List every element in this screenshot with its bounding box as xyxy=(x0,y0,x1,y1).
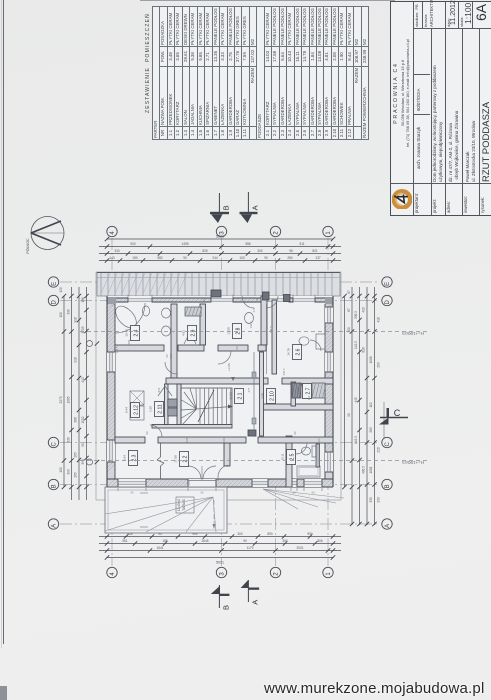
svg-text:D: D xyxy=(385,299,391,304)
svg-text:986: 986 xyxy=(202,297,206,302)
outer walls xyxy=(107,298,333,302)
room label 2.5 xyxy=(287,450,296,465)
svg-text:A: A xyxy=(250,205,259,210)
svg-text:118.5: 118.5 xyxy=(317,436,321,443)
interior walls xyxy=(171,304,177,378)
svg-text:C: C xyxy=(394,408,401,418)
axis grid lines xyxy=(111,238,113,566)
svg-text:H=+190cm: H=+190cm xyxy=(402,460,424,465)
chimney block bottom xyxy=(248,430,256,436)
dimension chains right xyxy=(344,296,346,487)
stairs arrow xyxy=(228,405,233,409)
svg-text:200: 200 xyxy=(169,353,173,358)
dark appliance stack by stairs xyxy=(168,399,177,407)
svg-text:90: 90 xyxy=(293,431,297,435)
svg-text:11,45m2: 11,45m2 xyxy=(177,499,181,511)
double terrace door room 2.2 xyxy=(188,479,216,487)
svg-text:345.5: 345.5 xyxy=(282,368,286,375)
svg-text:1: 1 xyxy=(326,231,332,235)
svg-text:2.6: 2.6 xyxy=(296,348,302,355)
svg-text:918: 918 xyxy=(74,317,78,323)
svg-text:265: 265 xyxy=(74,472,78,478)
scan bottom-left mark xyxy=(0,686,7,700)
svg-text:90: 90 xyxy=(264,256,268,260)
svg-text:PÓŁNOC: PÓŁNOC xyxy=(25,238,30,254)
watermark xyxy=(264,680,485,697)
room label 2.1 xyxy=(235,389,244,404)
svg-text:90: 90 xyxy=(145,431,149,435)
svg-text:2: 2 xyxy=(273,231,279,235)
svg-text:825: 825 xyxy=(157,387,161,392)
svg-text:+3.08: +3.08 xyxy=(227,363,231,371)
oval chair room 2.8 xyxy=(245,313,254,324)
svg-text:2.11: 2.11 xyxy=(158,404,164,414)
svg-text:382: 382 xyxy=(222,437,226,442)
chimney block top wall 2 xyxy=(263,292,270,300)
svg-text:300: 300 xyxy=(257,249,263,253)
svg-text:982: 982 xyxy=(157,256,163,260)
svg-text:330: 330 xyxy=(114,249,120,253)
wardrobe hatched room 2.9 xyxy=(185,307,201,316)
svg-text:90: 90 xyxy=(347,413,351,417)
partition room 2.5 xyxy=(316,444,320,467)
svg-text:87: 87 xyxy=(347,290,351,294)
svg-text:330: 330 xyxy=(369,497,373,503)
svg-text:TARAS: TARAS xyxy=(182,499,186,511)
small axis circle left xyxy=(87,341,93,347)
svg-text:925: 925 xyxy=(185,437,189,442)
door chevron corridor to 2.12 xyxy=(158,386,165,396)
svg-text:3705: 3705 xyxy=(81,326,85,333)
svg-text:148.5: 148.5 xyxy=(115,346,119,353)
room label 2.11 xyxy=(155,402,164,417)
bathtub room 2.5 xyxy=(297,466,320,477)
svg-text:8.44: 8.44 xyxy=(125,407,129,413)
terrace steps mark xyxy=(140,492,148,494)
scan top edge line xyxy=(140,0,395,1)
svg-text:300: 300 xyxy=(282,539,288,543)
svg-text:890: 890 xyxy=(267,532,273,536)
wardrobe hatched between 2.10 and 2.7 xyxy=(292,383,301,398)
door bottom wall hall xyxy=(252,479,268,487)
svg-text:1495: 1495 xyxy=(181,242,188,246)
svg-text:445: 445 xyxy=(354,397,358,403)
svg-text:5.64: 5.64 xyxy=(123,455,127,461)
svg-text:90: 90 xyxy=(81,443,85,447)
svg-text:B: B xyxy=(385,484,391,488)
svg-text:A: A xyxy=(52,524,58,528)
svg-text:900: 900 xyxy=(130,242,136,246)
svg-text:87: 87 xyxy=(347,308,351,312)
svg-text:1.90: 1.90 xyxy=(149,406,153,412)
svg-text:C: C xyxy=(52,441,58,446)
svg-text:E: E xyxy=(52,282,58,286)
terrace xyxy=(105,487,227,533)
svg-text:90: 90 xyxy=(312,491,315,495)
roof eaves outline xyxy=(96,272,341,500)
corner bathtub arc room 2.4 xyxy=(115,303,145,333)
scan left edge line xyxy=(3,0,4,644)
room schedule table xyxy=(145,6,369,140)
svg-text:10.43: 10.43 xyxy=(125,329,129,337)
svg-text:90: 90 xyxy=(183,256,187,260)
svg-text:13.08: 13.08 xyxy=(227,327,231,335)
room label 2.3 xyxy=(129,451,138,466)
room label 2.4 xyxy=(131,326,140,341)
svg-text:17.58: 17.58 xyxy=(174,455,178,463)
svg-text:436.5: 436.5 xyxy=(362,466,366,474)
svg-text:2.12: 2.12 xyxy=(134,405,140,415)
svg-text:2.2: 2.2 xyxy=(183,455,189,462)
section marker A top xyxy=(247,192,249,214)
svg-text:2.1: 2.1 xyxy=(238,392,244,399)
svg-text:244: 244 xyxy=(212,256,218,260)
svg-text:283: 283 xyxy=(369,427,373,433)
windows top wall xyxy=(128,298,152,303)
window sill marks xyxy=(117,488,119,491)
section marker C right xyxy=(380,417,408,419)
svg-text:2645: 2645 xyxy=(201,539,208,543)
svg-text:990: 990 xyxy=(307,532,313,536)
svg-text:2.9: 2.9 xyxy=(191,329,197,336)
svg-text:137: 137 xyxy=(315,256,321,260)
svg-text:2.10: 2.10 xyxy=(270,391,276,401)
room label 2.12 xyxy=(131,403,140,418)
svg-text:188: 188 xyxy=(162,539,168,543)
svg-text:336.5: 336.5 xyxy=(354,311,358,319)
svg-text:2001: 2001 xyxy=(296,546,303,550)
svg-text:142.5: 142.5 xyxy=(354,436,358,444)
leader line section C to axis bubble xyxy=(383,402,385,438)
north arrow xyxy=(31,217,64,250)
knee wall dashed line lower xyxy=(80,460,428,462)
corridor edge post upper xyxy=(252,372,256,378)
toilet room 2.5 xyxy=(302,447,311,455)
room label 2.7 xyxy=(303,384,312,399)
svg-text:280: 280 xyxy=(287,256,293,260)
svg-text:5021: 5021 xyxy=(216,235,224,239)
svg-text:90: 90 xyxy=(235,346,239,350)
svg-text:100: 100 xyxy=(59,312,63,318)
room label 2.6 xyxy=(293,345,302,360)
svg-text:90: 90 xyxy=(255,297,259,301)
svg-text:14.78: 14.78 xyxy=(287,348,291,356)
svg-text:4: 4 xyxy=(110,572,116,576)
thin partition 2.3|2.2 with zigzag xyxy=(160,443,162,457)
svg-text:H=+190cm: H=+190cm xyxy=(402,331,424,336)
svg-text:2.08: 2.08 xyxy=(261,393,265,399)
toilet room 2.4 xyxy=(142,306,149,316)
stairs winder fan xyxy=(183,409,197,424)
chimney block top wall 3 xyxy=(284,295,291,302)
windows right wall xyxy=(325,307,333,323)
corner bathtub basin room 2.4 xyxy=(112,302,141,331)
door chevron room 2.9 xyxy=(184,332,190,344)
roof drainage fan left xyxy=(105,497,213,514)
svg-text:14.03: 14.03 xyxy=(229,392,233,400)
small axis circle left lower xyxy=(87,459,93,465)
svg-text:150: 150 xyxy=(132,256,138,260)
svg-text:90: 90 xyxy=(243,539,247,543)
corner blocks top wall xyxy=(107,297,116,304)
room label 2.2 xyxy=(180,452,189,467)
svg-text:265: 265 xyxy=(74,452,78,458)
svg-text:388: 388 xyxy=(74,417,78,423)
svg-text:286: 286 xyxy=(127,339,131,344)
wardrobe hatched room 2.7 right xyxy=(312,383,325,398)
svg-text:2.8: 2.8 xyxy=(236,327,242,334)
axis bubbles letters left xyxy=(48,277,58,287)
svg-text:277: 277 xyxy=(247,387,251,392)
svg-text:2.7: 2.7 xyxy=(306,387,312,394)
svg-text:146.5: 146.5 xyxy=(249,321,253,328)
svg-text:1.84: 1.84 xyxy=(297,388,301,394)
svg-text:3: 3 xyxy=(219,572,225,576)
dimension chains bottom xyxy=(99,536,341,538)
svg-text:4: 4 xyxy=(110,231,116,235)
svg-text:1081: 1081 xyxy=(369,466,373,473)
svg-text:806: 806 xyxy=(317,539,323,543)
dimension chains left xyxy=(63,296,65,487)
svg-text:148.5: 148.5 xyxy=(269,326,273,333)
pillar block balcony edge xyxy=(211,290,221,297)
svg-text:2.4: 2.4 xyxy=(134,329,140,336)
balcony strip xyxy=(97,273,340,297)
svg-text:114: 114 xyxy=(307,395,311,400)
svg-text:120: 120 xyxy=(59,287,63,293)
knee wall dashed line upper xyxy=(80,331,428,333)
svg-text:2: 2 xyxy=(273,572,279,576)
balcony door top wall xyxy=(263,298,289,303)
svg-text:410: 410 xyxy=(362,307,366,313)
svg-text:390: 390 xyxy=(67,469,71,475)
axis bubbles numbered top xyxy=(107,226,117,236)
balcony diagonal hatch left part xyxy=(100,273,110,296)
corridor edge post lower xyxy=(252,418,256,424)
dimension chains top xyxy=(107,238,333,240)
washer room 2.12 xyxy=(130,391,144,405)
svg-text:E: E xyxy=(385,282,391,286)
section marker B bottom xyxy=(218,585,220,608)
room label 2.8 xyxy=(233,324,242,339)
svg-text:203: 203 xyxy=(377,362,381,368)
svg-text:B: B xyxy=(222,605,231,610)
svg-text:330: 330 xyxy=(67,437,71,443)
svg-text:110: 110 xyxy=(369,402,373,407)
sinks room 2.4 xyxy=(162,308,171,318)
section marker B top xyxy=(218,193,220,214)
svg-text:B: B xyxy=(222,205,231,210)
svg-text:801: 801 xyxy=(312,249,318,253)
svg-text:330: 330 xyxy=(67,309,71,315)
axis bubbles letters right xyxy=(382,277,392,287)
svg-text:A: A xyxy=(385,524,391,528)
svg-text:16.11: 16.11 xyxy=(281,453,285,461)
svg-text:100: 100 xyxy=(59,467,63,473)
svg-text:D: D xyxy=(52,299,58,304)
stairs xyxy=(181,388,232,425)
logo C4 xyxy=(392,190,412,210)
svg-text:1641: 1641 xyxy=(156,546,163,550)
svg-text:A: A xyxy=(250,600,259,605)
svg-text:100: 100 xyxy=(239,256,245,260)
desk room 2.6 xyxy=(316,334,325,349)
svg-text:1002: 1002 xyxy=(81,416,85,423)
svg-text:1008: 1008 xyxy=(369,356,373,363)
roof drainage fan right xyxy=(263,489,298,509)
terrace slope arrow xyxy=(213,500,215,528)
room label 2.9 xyxy=(188,326,197,341)
terrace label xyxy=(176,497,194,513)
svg-text:5021: 5021 xyxy=(216,561,224,565)
svg-text:300: 300 xyxy=(187,480,191,485)
windows bottom wall xyxy=(118,479,146,487)
svg-text:220: 220 xyxy=(377,447,381,453)
svg-text:B: B xyxy=(52,484,58,488)
svg-text:300: 300 xyxy=(237,532,243,536)
terrace fill xyxy=(105,487,227,533)
svg-text:233: 233 xyxy=(377,497,381,503)
svg-text:4.81: 4.81 xyxy=(182,330,186,336)
svg-text:413: 413 xyxy=(81,377,85,383)
svg-text:140: 140 xyxy=(109,256,115,260)
corridor stair opening edge line xyxy=(253,352,255,437)
building interior fill xyxy=(107,296,333,487)
svg-text:825: 825 xyxy=(202,249,208,253)
svg-text:1179: 1179 xyxy=(247,546,254,550)
svg-text:C: C xyxy=(385,441,391,446)
svg-text:96: 96 xyxy=(289,249,293,253)
svg-text:961: 961 xyxy=(122,539,128,543)
svg-text:1085: 1085 xyxy=(67,396,71,403)
svg-text:1: 1 xyxy=(326,572,332,576)
svg-text:142.5: 142.5 xyxy=(354,341,358,349)
svg-text:390: 390 xyxy=(81,459,85,465)
svg-text:188: 188 xyxy=(81,297,85,303)
svg-text:918: 918 xyxy=(74,357,78,363)
oval furniture room 2.6 xyxy=(299,337,309,345)
room label 2.10 xyxy=(267,389,276,404)
svg-text:273: 273 xyxy=(252,307,256,312)
svg-text:2.5: 2.5 xyxy=(290,453,296,460)
title block xyxy=(390,1,491,216)
stairs break line xyxy=(198,390,214,422)
svg-text:818: 818 xyxy=(362,347,366,353)
balcony railing inner line xyxy=(97,277,340,279)
svg-text:986: 986 xyxy=(245,242,251,246)
section marker A bottom xyxy=(247,580,249,602)
windows left wall xyxy=(107,352,115,372)
svg-text:2273: 2273 xyxy=(59,396,63,403)
level mark corridor xyxy=(231,377,235,381)
axis bubbles numbered bottom xyxy=(107,567,117,577)
svg-text:418: 418 xyxy=(377,317,381,323)
svg-text:511: 511 xyxy=(299,242,304,246)
